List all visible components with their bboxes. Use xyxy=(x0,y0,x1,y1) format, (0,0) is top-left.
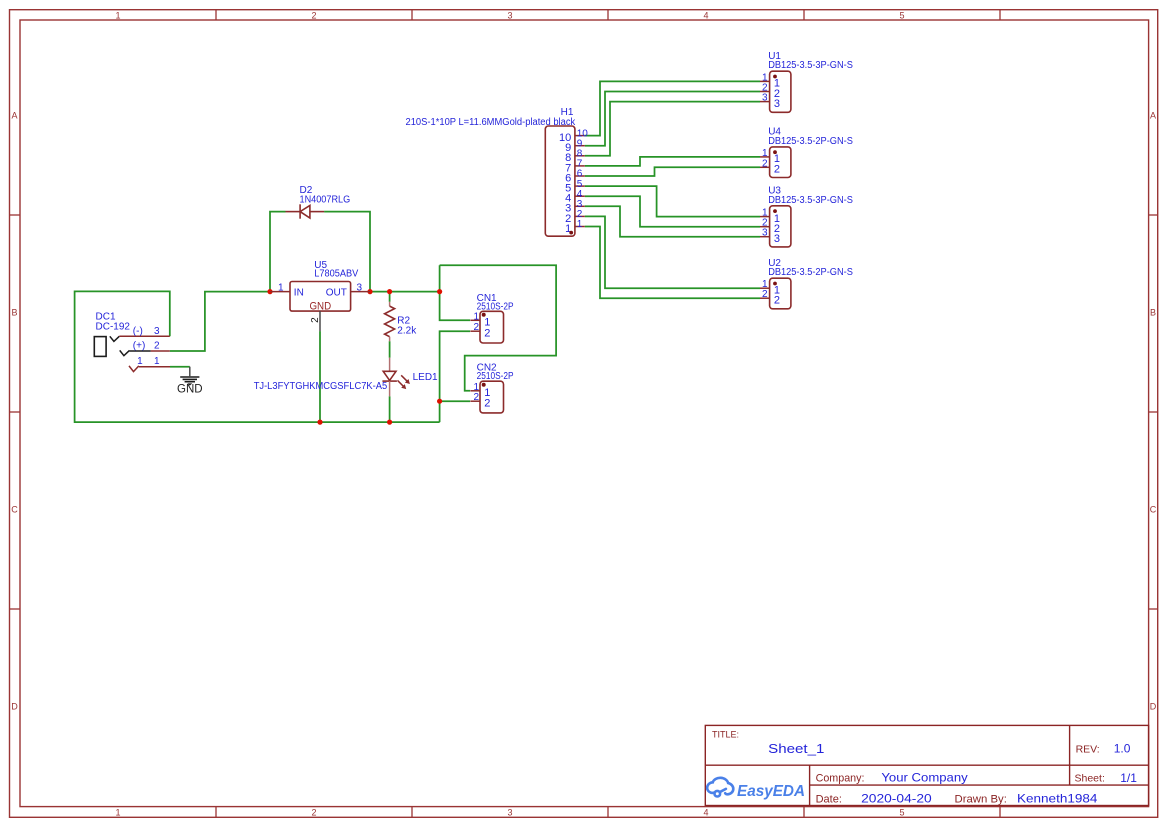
connector U1 body xyxy=(770,71,791,112)
title value Sheet_1 xyxy=(768,741,824,756)
svg-text:GND: GND xyxy=(177,384,203,396)
svg-text:2: 2 xyxy=(474,392,480,403)
label Date: xyxy=(816,794,842,806)
pin number 1 of CN2 (outside) xyxy=(474,382,480,393)
connector U4 body xyxy=(770,147,791,178)
regulator U5 pin2 stub (GND) xyxy=(319,311,321,331)
svg-text:3: 3 xyxy=(357,282,363,293)
wire CN2 pin1 net from +5V rail loop xyxy=(440,265,556,391)
pin name 1 of U1 (inside) xyxy=(774,78,780,90)
pin name 2 of U3 (inside) xyxy=(774,223,780,235)
LED LED1 arrows xyxy=(398,375,410,389)
svg-text:Date:: Date: xyxy=(816,794,842,806)
svg-text:DB125-3.5-2P-GN-S: DB125-3.5-2P-GN-S xyxy=(768,136,853,147)
pin number 1 of CN1 (outside) xyxy=(474,311,480,322)
label REV: xyxy=(1076,744,1100,756)
pin number 3 of DC1 xyxy=(154,326,160,337)
label U2 value DB125-3.5-2P-GN-S xyxy=(768,267,853,278)
pin name OUT of U5 xyxy=(326,287,347,298)
pin name 1 of CN1 (inside) xyxy=(484,317,490,329)
pin name 1 of H1 (inside) xyxy=(565,223,571,235)
pin number 1 of DC1 xyxy=(154,356,160,367)
wire LED1 cathode to GND bottom wire xyxy=(389,396,391,422)
svg-text:Sheet_1: Sheet_1 xyxy=(768,741,824,756)
pin name 2 of CN2 (inside) xyxy=(484,398,490,410)
pin name 3 of U3 (inside) xyxy=(774,233,780,245)
pin name (-) of DC1 pin3 xyxy=(133,326,143,337)
pin number 2 of CN2 (outside) xyxy=(474,392,480,403)
svg-text:1.0: 1.0 xyxy=(1114,742,1131,756)
svg-text:10: 10 xyxy=(577,128,589,139)
wire R2 top stub from +5V rail xyxy=(389,292,391,302)
svg-text:3: 3 xyxy=(507,807,512,817)
connector DC1 pin3 switch contact xyxy=(110,336,120,341)
svg-text:4: 4 xyxy=(703,10,708,20)
svg-text:2: 2 xyxy=(774,164,780,176)
wire H1 pin9 to U1 pin2 xyxy=(585,92,760,146)
svg-text:C: C xyxy=(1150,505,1157,515)
svg-text:1: 1 xyxy=(115,10,120,20)
diode D2 symbol xyxy=(286,204,325,218)
pin 1 stub of CN1 xyxy=(470,319,480,321)
svg-text:L7805ABV: L7805ABV xyxy=(314,269,358,280)
label CN2 reference xyxy=(477,363,497,374)
svg-text:1: 1 xyxy=(137,356,143,367)
pin name 2 of U4 (inside) xyxy=(774,164,780,176)
node +5V rail / R2 junction xyxy=(387,289,392,294)
title block outline xyxy=(705,725,1148,805)
svg-text:C: C xyxy=(11,505,18,515)
wire H1 pin3 to U3 pin3 xyxy=(585,206,760,236)
label R2 value 2.2k xyxy=(397,326,417,337)
regulator U5 pin1 stub xyxy=(270,291,290,293)
node U5 OUT / D2 cathode junction xyxy=(367,289,372,294)
svg-text:1: 1 xyxy=(474,311,480,322)
pin 1 stub of U3 xyxy=(760,216,770,218)
label CN1 value 2510S-2P xyxy=(477,301,514,312)
connector DC1 pin2 switch contact xyxy=(120,350,151,355)
pin name 2 of H1 (inside) xyxy=(565,213,571,225)
frame row letters left xyxy=(11,110,18,711)
svg-text:5: 5 xyxy=(899,10,904,20)
svg-text:1: 1 xyxy=(278,282,284,293)
pin number 1 of U3 (outside) xyxy=(762,208,768,219)
svg-text:1: 1 xyxy=(154,356,160,367)
pin number 2 of U2 (outside) xyxy=(762,289,768,300)
label D2 reference xyxy=(300,185,313,196)
title block logo cell divider xyxy=(809,765,811,805)
resistor R2 zigzag xyxy=(385,302,395,341)
label U2 reference xyxy=(768,258,781,269)
pin 10 stub of H1 xyxy=(575,135,585,137)
pin name 6 of H1 (inside) xyxy=(565,172,571,184)
svg-text:1: 1 xyxy=(115,807,120,817)
connector DC1 pin2 stub xyxy=(151,350,170,352)
connector U2 body xyxy=(770,278,791,309)
pin 7 stub of H1 xyxy=(575,165,585,167)
label TITLE: xyxy=(712,729,739,739)
pin1 marker dot of U2 xyxy=(773,282,777,286)
pin 4 stub of H1 xyxy=(575,195,585,197)
pin name 1 of U2 (inside) xyxy=(774,285,780,297)
svg-text:5: 5 xyxy=(577,179,583,190)
wire U5 GND pin to bottom GND wire xyxy=(319,331,321,422)
wire H1 pin10 to U1 pin1 xyxy=(585,81,760,135)
wire GND branch to CN2 pin2 xyxy=(440,400,471,402)
pin name 3 of U1 (inside) xyxy=(774,98,780,110)
title block title row divider xyxy=(705,764,1148,766)
pin name (+) of DC1 pin2 xyxy=(133,341,146,352)
label U3 value DB125-3.5-3P-GN-S xyxy=(768,195,853,206)
wire DC jack pin1 to ground symbol xyxy=(170,366,190,368)
company value Your Company xyxy=(881,770,967,784)
pin name 5 of H1 (inside) xyxy=(565,183,571,195)
pin1 marker dot of U4 xyxy=(773,150,777,154)
pin number 8 of H1 (outside) xyxy=(577,149,583,160)
pin 3 stub of H1 xyxy=(575,205,585,207)
svg-text:5: 5 xyxy=(899,807,904,817)
svg-text:3: 3 xyxy=(507,10,512,20)
pin name 4 of H1 (inside) xyxy=(565,193,571,205)
svg-text:B: B xyxy=(1150,308,1156,318)
node +5V rail / CN riser junction xyxy=(437,289,442,294)
pin 9 stub of H1 xyxy=(575,145,585,147)
pin1 marker dot of U3 xyxy=(773,209,777,213)
svg-text:2510S-2P: 2510S-2P xyxy=(477,301,514,312)
pin name 2 of U2 (inside) xyxy=(774,295,780,307)
svg-text:6: 6 xyxy=(577,169,583,180)
pin number 1 of U1 (outside) xyxy=(762,72,768,83)
pin name 3 of H1 (inside) xyxy=(565,203,571,215)
frame row ticks right xyxy=(1149,215,1158,609)
pin 2 stub of CN2 xyxy=(470,400,480,402)
svg-text:1: 1 xyxy=(577,219,583,230)
pin 2 stub of H1 xyxy=(575,215,585,217)
pin number 4 of H1 (outside) xyxy=(577,189,583,200)
label DC1 reference xyxy=(96,312,116,323)
frame column numbers top xyxy=(115,10,904,20)
pin number 3 of H1 (outside) xyxy=(577,199,583,210)
pin 1 stub of H1 xyxy=(575,226,585,228)
pin name 1 of U3 (inside) xyxy=(774,213,780,225)
EasyEDA logo text xyxy=(737,783,805,800)
svg-text:Drawn By:: Drawn By: xyxy=(955,794,1007,806)
svg-text:1: 1 xyxy=(762,148,768,159)
pin name IN of U5 xyxy=(294,287,304,298)
label U1 reference xyxy=(768,51,781,62)
pin number 2 of DC1 xyxy=(154,341,160,352)
label U5 reference xyxy=(314,260,327,271)
pin number 2 of U5 (rotated) xyxy=(310,317,321,323)
wire H1 pin4 to U3 pin2 xyxy=(585,196,760,227)
wire DC jack pin2 (+) to +IN rail xyxy=(170,292,270,351)
pin number 3 of U5 xyxy=(357,282,363,293)
node GND riser / CN2 pin2 junction xyxy=(437,399,442,404)
pin name 8 of H1 (inside) xyxy=(565,152,571,164)
pin number 2 of U1 (outside) xyxy=(762,83,768,94)
svg-text:3: 3 xyxy=(577,199,583,210)
svg-text:(-): (-) xyxy=(133,326,143,337)
pin 2 stub of U4 xyxy=(760,166,770,168)
svg-text:2: 2 xyxy=(762,158,768,169)
pin number 3 of U3 (outside) xyxy=(762,228,768,239)
svg-text:9: 9 xyxy=(577,138,583,149)
pin name 10 of H1 (inside) xyxy=(559,132,571,144)
pin 1 stub of U4 xyxy=(760,156,770,158)
regulator U5 pin3 stub xyxy=(351,291,370,293)
pin number 1 of U4 (outside) xyxy=(762,148,768,159)
svg-text:DC-192: DC-192 xyxy=(96,322,131,333)
pin1 marker dot of U1 xyxy=(773,75,777,79)
svg-text:REV:: REV: xyxy=(1076,744,1100,756)
svg-text:2: 2 xyxy=(311,10,316,20)
pin name 1 of U4 (inside) xyxy=(774,153,780,165)
EasyEDA logo cloud icon xyxy=(707,778,733,797)
svg-text:TITLE:: TITLE: xyxy=(712,729,739,739)
svg-text:DB125-3.5-3P-GN-S: DB125-3.5-3P-GN-S xyxy=(768,195,853,206)
svg-text:210S-1*10P L=11.6MMGold-plated: 210S-1*10P L=11.6MMGold-plated black xyxy=(406,117,577,128)
pin 3 stub of U1 xyxy=(760,101,770,103)
frame row ticks left xyxy=(10,215,21,609)
pin name 9 of H1 (inside) xyxy=(565,142,571,154)
wire H1 pin2 to U2 pin1 xyxy=(585,216,760,288)
label Drawn By: xyxy=(955,794,1007,806)
ground symbol GND xyxy=(180,367,199,386)
pin number 1 of U2 (outside) xyxy=(762,279,768,290)
label U5 value L7805ABV xyxy=(314,269,358,280)
svg-text:3: 3 xyxy=(762,228,768,239)
svg-text:2: 2 xyxy=(484,328,490,340)
svg-text:10: 10 xyxy=(559,132,571,144)
pin number 3 of U1 (outside) xyxy=(762,93,768,104)
pin 1 stub of CN2 xyxy=(470,390,480,392)
pin 5 stub of H1 xyxy=(575,185,585,187)
wire GND loop: DC jack pin3 up, left, down and along bottom xyxy=(75,291,440,422)
label U4 value DB125-3.5-2P-GN-S xyxy=(768,136,853,147)
connector H1 body xyxy=(545,126,575,236)
svg-text:3: 3 xyxy=(154,326,160,337)
svg-text:1: 1 xyxy=(474,382,480,393)
svg-text:3: 3 xyxy=(762,93,768,104)
pin number 2 of H1 (outside) xyxy=(577,209,583,220)
wire R2 bottom to LED1 anode xyxy=(389,341,391,358)
pin name 1 of CN2 (inside) xyxy=(484,387,490,399)
pin 6 stub of H1 xyxy=(575,175,585,177)
wire D2 anode branch from input rail xyxy=(270,212,286,292)
svg-text:TJ-L3FYTGHKMCGSFLC7K-A5: TJ-L3FYTGHKMCGSFLC7K-A5 xyxy=(254,381,388,392)
regulator U5 body xyxy=(290,282,351,312)
svg-text:2: 2 xyxy=(577,209,583,220)
node GND wire / U5 GND junction xyxy=(317,420,322,425)
svg-text:OUT: OUT xyxy=(326,287,347,298)
frame column numbers bottom xyxy=(115,807,904,817)
svg-text:(+): (+) xyxy=(133,341,146,352)
svg-text:B: B xyxy=(11,308,17,318)
connector DC1 pin1 stub xyxy=(139,366,170,368)
label U1 value DB125-3.5-3P-GN-S xyxy=(768,60,853,71)
pin 1 stub of U1 xyxy=(760,80,770,82)
svg-text:Your Company: Your Company xyxy=(881,770,967,784)
frame column ticks top xyxy=(216,10,1000,20)
svg-text:IN: IN xyxy=(294,287,304,298)
label Company: xyxy=(816,772,865,784)
svg-text:Sheet:: Sheet: xyxy=(1075,772,1105,784)
wire H1 pin1 to U2 pin2 xyxy=(585,227,760,299)
svg-text:2: 2 xyxy=(774,295,780,307)
svg-text:2: 2 xyxy=(474,322,480,333)
label GND net name xyxy=(177,384,203,396)
connector CN2 body xyxy=(480,381,504,413)
pin 8 stub of H1 xyxy=(575,155,585,157)
title block rev column divider xyxy=(1069,725,1071,785)
svg-text:1/1: 1/1 xyxy=(1120,771,1137,785)
svg-text:A: A xyxy=(11,110,17,120)
wire H1 pin7 to U4 pin1 xyxy=(585,157,760,166)
label CN1 reference xyxy=(477,293,497,304)
wire H1 pin5 to U3 pin1 xyxy=(585,186,760,217)
pin 2 stub of CN1 xyxy=(470,330,480,332)
svg-text:2: 2 xyxy=(310,317,321,323)
pin1 marker dot of CN2 xyxy=(482,383,486,387)
pin 3 stub of U3 xyxy=(760,236,770,238)
label U4 reference xyxy=(768,127,781,138)
frame column ticks bottom xyxy=(216,807,1000,818)
wire CN1 pin1 riser from +5V rail xyxy=(440,265,471,320)
connector DC1 pin1 switch contact xyxy=(129,366,139,372)
pin name 7 of H1 (inside) xyxy=(565,162,571,174)
svg-text:4: 4 xyxy=(577,189,583,200)
pin number 1 of H1 (outside) xyxy=(577,219,583,230)
svg-text:Company:: Company: xyxy=(816,772,865,784)
pin number 7 of H1 (outside) xyxy=(577,159,583,170)
svg-text:3: 3 xyxy=(774,233,780,245)
svg-text:8: 8 xyxy=(577,149,583,160)
drawn-by value Kenneth1984 xyxy=(1017,792,1098,806)
node input rail / D2 anode junction xyxy=(267,289,272,294)
svg-text:EasyEDA: EasyEDA xyxy=(737,783,805,800)
svg-text:7: 7 xyxy=(577,159,583,170)
node GND wire / LED1 junction xyxy=(387,420,392,425)
pin number 2 of U3 (outside) xyxy=(762,218,768,229)
svg-text:GND: GND xyxy=(309,301,331,313)
wire D2 cathode branch to +5V rail xyxy=(324,212,370,292)
svg-text:3: 3 xyxy=(774,98,780,110)
label U3 reference xyxy=(768,186,781,197)
pin name GND of U5 xyxy=(309,301,331,313)
svg-text:4: 4 xyxy=(703,807,708,817)
svg-text:2: 2 xyxy=(484,398,490,410)
pin number 2 of U4 (outside) xyxy=(762,158,768,169)
svg-text:2.2k: 2.2k xyxy=(397,326,417,337)
label LED1 value TJ-L3FYTGHKMCGSFLC7K-A5 xyxy=(254,381,388,392)
svg-text:2: 2 xyxy=(154,341,160,352)
svg-text:LED1: LED1 xyxy=(413,372,438,383)
wire H1 pin6 to U4 pin2 xyxy=(585,167,760,176)
label CN2 value 2510S-2P xyxy=(477,371,514,382)
label R2 reference xyxy=(397,316,410,327)
label H1 value 210S-1*10P L=11.6MMGold-plated black xyxy=(406,117,577,128)
connector U3 body xyxy=(770,206,791,247)
svg-text:D: D xyxy=(1150,702,1157,712)
pin name 1 of DC1 pin1 xyxy=(137,356,143,367)
wire +5V rail from U5 OUT xyxy=(370,291,440,293)
pin 1 stub of U2 xyxy=(760,287,770,289)
title block company/date row divider xyxy=(810,784,1149,786)
svg-text:DB125-3.5-3P-GN-S: DB125-3.5-3P-GN-S xyxy=(768,60,853,71)
pin1 marker dot of H1 xyxy=(569,231,573,235)
sheet value 1/1 xyxy=(1120,771,1137,785)
pin number 9 of H1 (outside) xyxy=(577,138,583,149)
label D2 value 1N4007RLG xyxy=(300,195,351,206)
connector DC1 barrel jack body xyxy=(94,337,106,357)
pin number 1 of U5 xyxy=(278,282,284,293)
connector DC1 pin3 stub xyxy=(119,335,170,337)
svg-text:2: 2 xyxy=(311,807,316,817)
pin1 marker dot of CN1 xyxy=(482,313,486,317)
svg-text:D: D xyxy=(11,702,18,712)
pin name 2 of U1 (inside) xyxy=(774,88,780,100)
svg-text:2020-04-20: 2020-04-20 xyxy=(861,792,932,806)
pin 2 stub of U1 xyxy=(760,91,770,93)
svg-text:DB125-3.5-2P-GN-S: DB125-3.5-2P-GN-S xyxy=(768,267,853,278)
pin name 2 of CN1 (inside) xyxy=(484,328,490,340)
wire H1 pin8 to U1 pin3 xyxy=(585,102,760,156)
pin 2 stub of U2 xyxy=(760,297,770,299)
date value 2020-04-20 xyxy=(861,792,932,806)
svg-text:1N4007RLG: 1N4007RLG xyxy=(300,195,351,206)
frame row letters right xyxy=(1150,110,1157,711)
label Sheet: xyxy=(1075,772,1105,784)
connector CN1 body xyxy=(480,311,504,343)
svg-text:A: A xyxy=(1150,110,1156,120)
label H1 reference xyxy=(561,107,574,118)
pin number 10 of H1 (outside) xyxy=(577,128,589,139)
pin number 5 of H1 (outside) xyxy=(577,179,583,190)
svg-text:Kenneth1984: Kenneth1984 xyxy=(1017,792,1098,806)
pin 2 stub of U3 xyxy=(760,226,770,228)
wire GND riser to CN1 pin2 / CN2 pin2 xyxy=(440,331,471,422)
svg-text:2510S-2P: 2510S-2P xyxy=(477,371,514,382)
pin number 2 of CN1 (outside) xyxy=(474,322,480,333)
label DC1 value DC-192 xyxy=(96,322,131,333)
svg-text:2: 2 xyxy=(762,289,768,300)
rev value 1.0 xyxy=(1114,742,1131,756)
label LED1 reference xyxy=(413,372,438,383)
pin number 6 of H1 (outside) xyxy=(577,169,583,180)
LED LED1 symbol xyxy=(382,358,397,397)
